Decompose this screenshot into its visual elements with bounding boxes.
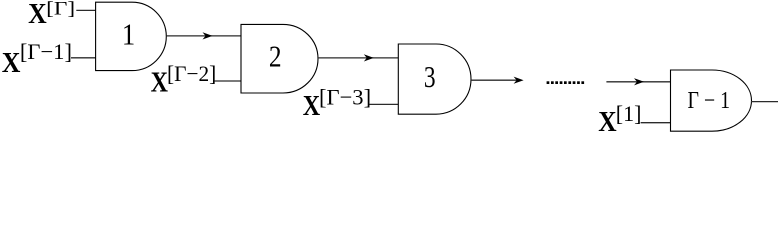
svg-text:3: 3 bbox=[424, 59, 436, 94]
svg-text:[1]: [1] bbox=[616, 101, 642, 126]
svg-text:X: X bbox=[2, 48, 21, 79]
svg-text:X: X bbox=[598, 107, 616, 136]
svg-text:[Γ−2]: [Γ−2] bbox=[167, 61, 216, 86]
svg-text:[Γ−1]: [Γ−1] bbox=[20, 39, 72, 64]
arrowhead on wire U1 to U2 bbox=[203, 32, 213, 39]
arrowhead on wire U2 to U3 bbox=[364, 54, 374, 61]
arrowhead on wire into U4 bbox=[634, 78, 644, 85]
svg-text:2: 2 bbox=[269, 38, 282, 73]
AND gate U1 bbox=[96, 2, 167, 70]
svg-text:[Γ−3]: [Γ−3] bbox=[319, 85, 371, 110]
arrowhead at end of U3 output stub bbox=[514, 77, 524, 84]
svg-text:[Γ]: [Γ] bbox=[46, 0, 75, 19]
svg-text:Γ − 1: Γ − 1 bbox=[688, 88, 731, 114]
node label X^[Gamma-2] bbox=[151, 61, 217, 99]
AND gate U4 (Gamma-1) bbox=[671, 70, 752, 131]
AND gate U2 bbox=[241, 24, 318, 93]
wire U2 output to U3 top input bbox=[318, 57, 399, 59]
wire X^[1] to U4 bottom input bbox=[641, 122, 671, 124]
wire X^[Gamma-1] to U1 bottom input bbox=[71, 57, 96, 59]
wire X^[Gamma-3] to U3 bottom input bbox=[370, 103, 399, 105]
wire U1 output to U2 top input bbox=[166, 35, 241, 37]
wire X^[Gamma-2] to U2 bottom input bbox=[215, 80, 242, 82]
svg-text:X: X bbox=[151, 68, 168, 99]
wire into U4 top input bbox=[606, 81, 670, 83]
ellipsis dots between U3 and U4 bbox=[547, 81, 585, 84]
node label X^[1] bbox=[598, 101, 641, 138]
node label X^[Gamma-3] bbox=[303, 85, 371, 122]
wire U3 output stub bbox=[471, 79, 519, 81]
svg-text:X: X bbox=[28, 0, 47, 30]
node label X^[Gamma] bbox=[28, 0, 75, 30]
wire U4 output bbox=[751, 101, 778, 103]
svg-text:X: X bbox=[303, 91, 320, 122]
node label X^[Gamma-1] bbox=[2, 39, 72, 79]
svg-text:1: 1 bbox=[122, 17, 135, 52]
wire X^[Gamma] to U1 top input bbox=[76, 9, 95, 11]
AND gate U3 bbox=[398, 44, 471, 114]
